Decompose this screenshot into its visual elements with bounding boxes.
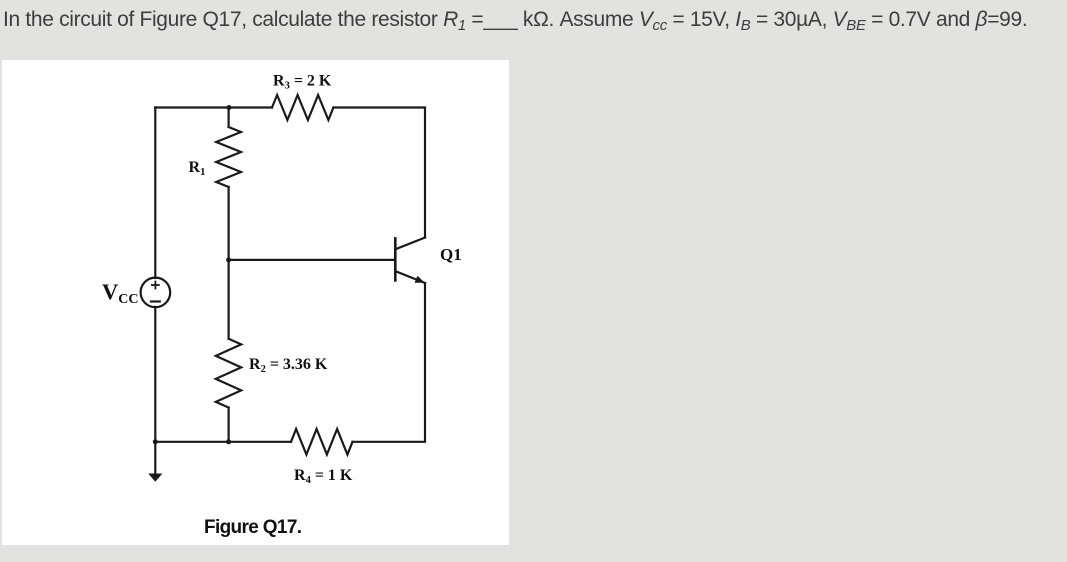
wire: R2 bottom lead <box>228 408 230 442</box>
svg-text:Q1: Q1 <box>440 245 462 264</box>
question text <box>3 8 1027 32</box>
node: top junction dot <box>227 105 232 110</box>
wire: mid junction down to R2 <box>228 260 230 339</box>
resistor R3 <box>272 95 333 120</box>
svg-text:R3 = 2 K: R3 = 2 K <box>273 73 332 92</box>
wire: left rail upper <box>154 108 156 279</box>
resistor R4 <box>291 429 353 455</box>
voltage source Vcc <box>141 278 171 308</box>
transistor Q1 <box>395 238 425 284</box>
figure panel <box>2 60 509 545</box>
resistor R2 <box>216 339 241 408</box>
node: mid junction dot <box>226 257 231 262</box>
wire: bottom rail right segment <box>353 283 426 442</box>
svg-text:R1: R1 <box>189 159 206 178</box>
wire: R1 bottom lead to mid junction <box>228 187 230 260</box>
wire: R1 top lead <box>228 108 230 128</box>
wire: bottom rail left segment <box>155 441 291 443</box>
svg-text:VCC: VCC <box>102 279 138 307</box>
wire: top rail left segment <box>155 106 272 108</box>
wire: top rail right segment <box>333 108 425 238</box>
node: bottom mid junction dot <box>226 439 231 444</box>
resistor R1 <box>216 127 241 187</box>
wire: base wire <box>229 259 396 261</box>
wire: left rail lower <box>154 307 156 442</box>
svg-text:R4 = 1 K: R4 = 1 K <box>294 467 353 486</box>
node: bottom-left junction dot <box>153 439 158 444</box>
ground <box>148 442 162 482</box>
svg-text:R2 = 3.36 K: R2 = 3.36 K <box>249 356 328 375</box>
